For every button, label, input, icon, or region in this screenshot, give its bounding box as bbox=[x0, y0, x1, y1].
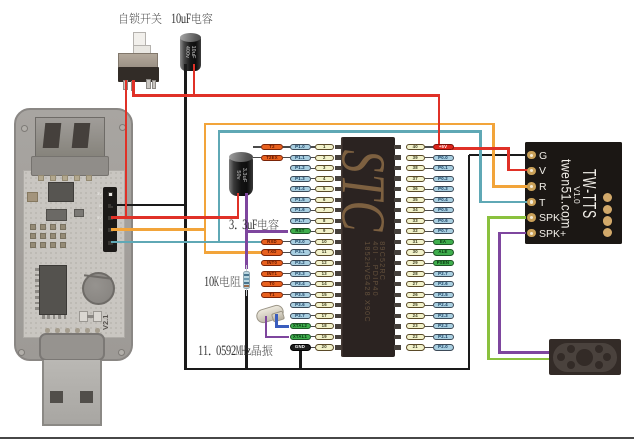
IC U1 pin 22 row: P2.1 bbox=[406, 334, 426, 340]
IC U1 pin 23 row: P2.2 bbox=[406, 323, 426, 329]
resistor R1 10K bbox=[246, 265, 248, 272]
speaker body bbox=[549, 339, 622, 375]
IC U1 pin 40 row: +5V bbox=[406, 144, 426, 150]
IC U1 pin 17 row: P3.7 bbox=[290, 313, 311, 319]
capacitor C1 label text bbox=[184, 46, 196, 59]
board crystal circle bbox=[82, 272, 115, 305]
wire purple: SPK+ into speaker bbox=[498, 351, 549, 354]
wire GND: bottom horizontal bbox=[184, 368, 470, 371]
IC U1 pin 28 row: P2.7 bbox=[406, 271, 426, 277]
wire green: SPK- into speaker bbox=[487, 358, 549, 361]
crystal Y1 11.0592MHz body bbox=[255, 303, 286, 325]
wire teal: top horizontal bbox=[218, 130, 482, 133]
wire GND: IC pin20 drop bbox=[299, 350, 302, 370]
wire teal: into T pin bbox=[479, 201, 528, 204]
wire teal: right drop to T pin bbox=[479, 132, 482, 204]
IC U1 pin 32 row: P0.7 bbox=[406, 228, 426, 234]
board tan pad bbox=[27, 192, 38, 202]
wire orange: top horizontal bbox=[204, 123, 495, 126]
IC U1 pin 12 row: INT0 / P3.2 bbox=[261, 260, 283, 266]
capacitor C2 3.3uF body bbox=[229, 155, 253, 196]
wire red: top horizontal rail bbox=[132, 94, 440, 97]
wire green: SPK- horizontal bbox=[487, 216, 526, 219]
page bottom rule bbox=[0, 437, 634, 439]
speaker small holes bbox=[567, 345, 575, 353]
USB adapter board case bbox=[14, 108, 133, 361]
USB plug metal tongue bbox=[42, 360, 102, 426]
IC U1 pin 13 row: INT1 / P3.3 bbox=[261, 271, 283, 277]
wire orange: header to riser bbox=[111, 228, 206, 231]
wire GND: resistor R1 to ground vertical bbox=[245, 290, 248, 370]
board bottom pad row bbox=[45, 328, 50, 333]
capacitor C1 10uF body bbox=[180, 35, 201, 71]
wire GND: horizontal to G pin bbox=[469, 154, 528, 157]
wire red: drop to +5V pin40 bbox=[438, 94, 441, 146]
IC U1 part number text bbox=[363, 241, 385, 323]
IC U1 pin 24 row: P2.3 bbox=[406, 313, 426, 319]
IC U1 pin 9 row: RST bbox=[290, 228, 311, 234]
IC U1 pin 16 row: P3.6 bbox=[290, 302, 311, 308]
IC U1 pin 4 row: P1.3 bbox=[290, 176, 311, 182]
USB female connector on board bbox=[35, 117, 105, 162]
IC U1 pin 11 row: TXD / P3.1 bbox=[261, 249, 283, 255]
wire purple: into RST pill bbox=[245, 230, 288, 233]
IC U1 pin 30 row: ALE bbox=[406, 249, 426, 255]
IC U1 pin 3 row: P1.2 bbox=[290, 165, 311, 171]
USB plug hole left bbox=[50, 391, 63, 403]
board chip A bbox=[48, 182, 74, 202]
switch S1 pins bbox=[123, 80, 128, 90]
IC U1 pin 34 row: P0.5 bbox=[406, 207, 426, 213]
IC U1 pin 38 row: P0.1 bbox=[406, 165, 426, 171]
wire purple: SPK+ vertical drop bbox=[498, 232, 501, 354]
board V2.1 text bbox=[101, 300, 110, 330]
wire orange: riser vertical bbox=[204, 124, 207, 254]
wire teal: header to RXD pill bbox=[111, 241, 263, 244]
wire purple: C2 negative leg to RST down bbox=[245, 193, 248, 269]
wire green: SPK- vertical drop bbox=[487, 216, 490, 360]
header J1 on board bbox=[103, 187, 117, 252]
wire GND: right vertical up to module bbox=[468, 155, 471, 370]
wire blue: crystal to XTAL2 vertical bbox=[275, 314, 278, 327]
wire purple: into XTAL1 pill bbox=[265, 336, 290, 339]
IC U1 pin 31 row: EA bbox=[406, 239, 426, 245]
board resistor pair bbox=[79, 311, 88, 322]
IC U1 pin 1 row: T2 / P1.0 bbox=[261, 144, 283, 150]
header pin labels 3V G 5V R T bbox=[94, 191, 102, 196]
module U2 TW-TTS body bbox=[525, 142, 622, 244]
wire GND: header to C1 leg horizontal bbox=[111, 204, 187, 207]
IC U1 STC89C52RC body bbox=[341, 137, 395, 357]
wire red: switch pin to 5V rail riser bbox=[132, 80, 135, 97]
IC U1 pin 5 row: P1.4 bbox=[290, 186, 311, 192]
IC U1 pin 29 row: PSEN bbox=[406, 260, 426, 266]
IC U1 pin 18 row: XTAL2 bbox=[290, 323, 311, 329]
IC U1 pin 15 row: T1 / P3.5 bbox=[261, 292, 283, 298]
IC U1 pin 36 row: P0.3 bbox=[406, 186, 426, 192]
USB board PCB area bbox=[23, 170, 125, 338]
IC U1 pin 26 row: P2.5 bbox=[406, 292, 426, 298]
wire orange: into R pin bbox=[492, 185, 528, 188]
label 11.0592MHz晶振 bbox=[198, 342, 275, 358]
module U2 pin holes bbox=[527, 151, 536, 160]
wire red: into V pin bbox=[507, 169, 528, 172]
speaker center hole bbox=[576, 349, 593, 366]
board solder pads row bbox=[38, 175, 44, 181]
IC U1 pin 2 row: T2EX / P1.1 bbox=[261, 155, 283, 161]
USB plug hole right bbox=[80, 391, 93, 403]
IC U1 pin 20 row: GND bbox=[290, 344, 311, 350]
switch S1 body top bbox=[118, 53, 158, 69]
module U2 gold pads bbox=[603, 193, 612, 202]
IC U1 pin 19 row: XTAL1 bbox=[290, 334, 311, 340]
wire purple: SPK+ horizontal bbox=[498, 232, 526, 235]
board long IC bbox=[39, 265, 67, 315]
IC U1 pin 8 row: P1.7 bbox=[290, 218, 311, 224]
capacitor C2 label text bbox=[235, 168, 247, 182]
module U2 pin labels bbox=[539, 150, 547, 162]
IC U1 pin 33 row: P0.6 bbox=[406, 218, 426, 224]
wire blue: into XTAL2 pill bbox=[275, 325, 289, 328]
wire orange: right drop to R pin bbox=[492, 124, 495, 188]
wire red: +5V pill to module riser bbox=[452, 147, 510, 150]
IC U1 pin 10 row: RXD / P3.0 bbox=[261, 239, 283, 245]
wire red: module riser vertical bbox=[507, 147, 510, 171]
wire purple: crystal to XTAL1 vertical bbox=[265, 316, 268, 338]
label 自锁开关 bbox=[118, 10, 164, 26]
label 10uF电容 bbox=[171, 10, 215, 26]
IC U1 pin 37 row: P0.2 bbox=[406, 176, 426, 182]
module U2 rotated text twen51.com bbox=[558, 159, 574, 229]
board pad grid bbox=[30, 224, 36, 230]
USB plug neck bbox=[39, 333, 105, 361]
module U2 rotated text TW-TTS bbox=[578, 169, 600, 219]
switch S1 plunger bbox=[133, 32, 146, 50]
IC U1 pin 6 row: P1.5 bbox=[290, 197, 311, 203]
board chip B bbox=[46, 209, 67, 221]
wire teal: riser vertical bbox=[218, 132, 221, 244]
switch S1 body base bbox=[118, 67, 159, 82]
IC U1 pin 27 row: P2.6 bbox=[406, 281, 426, 287]
wire red: C2 positive leg riser bbox=[237, 193, 240, 219]
board corner screws bbox=[21, 125, 28, 132]
IC U1 pin 39 row: P0.0 bbox=[406, 155, 426, 161]
wire GND: C1 negative leg vertical bbox=[184, 64, 187, 370]
IC U1 pin 25 row: P2.4 bbox=[406, 302, 426, 308]
wire orange: to TXD pill bbox=[204, 251, 263, 254]
wire red: header to C2 horizontal bbox=[111, 216, 239, 219]
IC U1 pin 21 row: P2.0 bbox=[406, 344, 426, 350]
IC U1 STC logo text bbox=[327, 150, 399, 233]
wire red: C1 positive leg bbox=[193, 64, 196, 97]
module U2 rotated text V1.0 bbox=[572, 186, 582, 204]
label 10K电阻 bbox=[204, 273, 243, 289]
IC U1 pin 35 row: P0.4 bbox=[406, 197, 426, 203]
IC U1 pin 14 row: T0 / P3.4 bbox=[261, 281, 283, 287]
label 3.3uF电容 bbox=[229, 216, 281, 232]
IC U1 pin 7 row: P1.6 bbox=[290, 207, 311, 213]
board small chip bbox=[74, 209, 84, 217]
IC U1 left legs bbox=[335, 145, 342, 149]
IC U1 right legs bbox=[394, 145, 401, 149]
wire red: switch pin to header vertical bbox=[125, 80, 128, 219]
